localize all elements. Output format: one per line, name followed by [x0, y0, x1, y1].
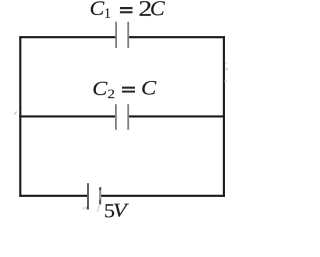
wire middle-right segment — [128, 115, 225, 117]
wire left vertical — [19, 36, 21, 197]
wire middle-left segment — [19, 115, 116, 117]
artifact haze left of battery plate — [82, 207, 87, 210]
label C2 = C — [93, 81, 156, 98]
wire top-right segment — [128, 36, 225, 38]
label C1 = 2C — [91, 1, 165, 18]
artifact smudge near middle-left junction — [14, 111, 16, 114]
capacitor C2 — [116, 104, 128, 130]
battery V1 — [87, 183, 101, 212]
capacitor C1 — [116, 22, 128, 48]
wire bottom-right segment — [101, 195, 225, 197]
artifact dots right of right wire — [225, 62, 227, 64]
label 5V — [105, 204, 129, 218]
wire bottom-left segment — [19, 195, 88, 197]
wire right vertical — [223, 36, 225, 197]
wire top-left segment — [19, 36, 116, 38]
